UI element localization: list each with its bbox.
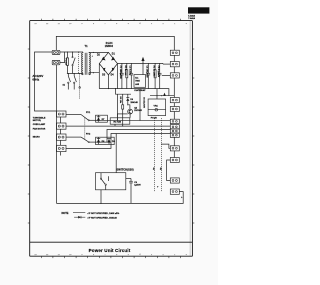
capacitor C3 (157, 63, 162, 88)
scan shadow line (189, 21, 191, 256)
svg-text:R4 72B: R4 72B (114, 120, 122, 123)
frame tick marks top (0, 0, 1, 1)
connector CN3 (57, 134, 67, 140)
connector CN-I (170, 178, 179, 183)
connector CN-E (170, 107, 179, 112)
plug connector P2 (52, 60, 60, 64)
transistor Q2 (128, 107, 143, 114)
5V output arrow (141, 57, 144, 75)
fuse F1 (65, 52, 69, 74)
capacitor C2 (129, 63, 134, 88)
svg-text:OVEN LAMP: OVEN LAMP (33, 123, 46, 126)
connector CN4 (57, 145, 67, 151)
diode D9 (107, 139, 115, 145)
node secondary-bridge junction (93, 52, 94, 53)
svg-text:60Hz: 60Hz (32, 78, 39, 82)
connector CN1 (57, 111, 67, 117)
svg-text:D1-D4: D1-D4 (106, 42, 113, 45)
C9 ground stub (130, 188, 132, 204)
left connector group bus (60, 117, 62, 156)
border frame (30, 21, 193, 257)
capacitor C1 (119, 63, 124, 88)
secondary top wire (89, 51, 108, 53)
lower AC rail (67, 73, 83, 75)
CN-G link wire (161, 144, 170, 148)
resistor box R4 (110, 118, 130, 124)
bridge minus leg wire (107, 75, 109, 89)
R4 stub (114, 124, 116, 126)
transformer T1 (82, 44, 91, 75)
R3 line (115, 88, 131, 121)
wire hot rail to transformer (65, 51, 84, 53)
diode D8 D9 box (96, 137, 115, 144)
monitor switch contact (79, 87, 81, 89)
interlock switch S1 (72, 52, 75, 74)
svg-text:2SC945: 2SC945 (134, 109, 142, 112)
DC minus rail (99, 88, 163, 90)
zone numbers (34, 22, 187, 256)
top rail wire (56, 36, 174, 50)
bridge AC leg wire (98, 64, 100, 89)
VR1 feed wires (156, 89, 158, 99)
CN-H CN-I bracket wire (167, 160, 171, 181)
frame tick marks (28, 19, 195, 258)
svg-text:1µ/50V: 1µ/50V (134, 185, 141, 187)
wire stub to CN-C (162, 74, 170, 76)
Q2 emitter wire (129, 114, 131, 118)
middle bus wire 1 (99, 119, 171, 121)
connector CN-A (170, 50, 179, 55)
S20 feed wire (115, 134, 117, 173)
svg-text:1N4004: 1N4004 (105, 45, 114, 48)
switch linkage dashed line A (152, 118, 154, 192)
svg-text:R3 10k: R3 10k (119, 97, 121, 105)
svg-text:C1 1000µ/25V: C1 1000µ/25V (119, 66, 121, 80)
svg-text:C2 0.022µ: C2 0.022µ (129, 66, 131, 76)
plug connector P1 (52, 50, 60, 54)
wire AC neutral return (56, 65, 58, 204)
svg-text:SWITCH(S20): SWITCH(S20) (117, 168, 134, 172)
node dots on hot rail (67, 51, 68, 52)
AC input wire (35, 52, 57, 111)
secondary bottom wire (89, 73, 99, 75)
Q2 base wire (117, 113, 127, 115)
relay RY1 (66, 112, 99, 121)
switch linkage dashes lower (79, 74, 81, 100)
middle bus wire 4 (66, 134, 170, 149)
switch linkage dashed line B (159, 118, 161, 192)
line from bank (139, 89, 140, 121)
small output arrow (163, 93, 165, 96)
diode D7 box (96, 115, 108, 122)
connector CN-D (170, 98, 179, 103)
resistor R1 (124, 63, 128, 88)
diode D8 (97, 137, 105, 144)
relay actuator dashes (84, 118, 86, 140)
NOTE block (62, 212, 120, 220)
sheet number black redaction box (188, 7, 209, 20)
relay RY2 (66, 134, 99, 143)
svg-text:R1 4.7 1W: R1 4.7 1W (124, 66, 127, 76)
cap bank right edge wire (162, 62, 164, 65)
connector CN-J (170, 189, 179, 194)
svg-text:F1 15A: F1 15A (65, 59, 68, 66)
svg-text:FAN MOTOR: FAN MOTOR (33, 127, 46, 130)
svg-text:NOTE: NOTE (62, 212, 69, 215)
switch S20 box (96, 173, 126, 190)
connector CN-B (170, 62, 179, 67)
svg-text:C5 100µ/10V: C5 100µ/10V (146, 66, 148, 79)
svg-text:Power Unit Circuit: Power Unit Circuit (89, 248, 131, 253)
connector CN-G (170, 146, 179, 151)
resistor R5 (122, 94, 124, 126)
connector CN-H (170, 158, 179, 163)
connector CN-C (170, 73, 179, 78)
connector CN-F cluster (170, 119, 179, 137)
diode D6 (126, 94, 138, 109)
middle bus wire 3 (99, 130, 171, 143)
middle bus wire 2 (66, 125, 170, 127)
right connector column bus (173, 55, 175, 157)
VR1 potentiometer box (148, 99, 166, 120)
svg-text:: IF NOT SPECIFIED, 1/4W ±5%: : IF NOT SPECIFIED, 1/4W ±5% (87, 212, 119, 215)
svg-text:MICRO: MICRO (33, 136, 40, 138)
svg-text:C6 47µ/16V: C6 47µ/16V (143, 97, 146, 109)
svg-text:: IF NOT SPECIFIED, 1N4148: : IF NOT SPECIFIED, 1N4148 (87, 216, 117, 219)
wire jog P1 to P2 (60, 52, 65, 63)
bottom return wire (101, 190, 183, 204)
capacitor C9 (126, 179, 142, 188)
svg-text:R2 1k 1/2W: R2 1k 1/2W (153, 66, 155, 77)
bridge plus drop wire (117, 64, 119, 89)
svg-text:MOTOR,: MOTOR, (33, 120, 42, 122)
diode D7 (97, 115, 105, 122)
capacitor C5 (146, 63, 151, 88)
monitor switch dashed linkage (78, 52, 80, 74)
neutral joins bottom (57, 202, 102, 204)
bridge rectifier D1-D4 (97, 42, 118, 77)
connector CN2 (57, 123, 67, 129)
bridge plus wire to cap bank (118, 62, 164, 64)
door switch S2 (68, 74, 71, 90)
title bar separator (30, 241, 193, 243)
door switch S3 (74, 74, 77, 90)
svg-text:C3 0.1µ/50V: C3 0.1µ/50V (157, 66, 159, 78)
resistor R2 (153, 63, 157, 88)
regulator IC1 (134, 75, 146, 92)
svg-text:7-A68A: 7-A68A (188, 17, 195, 20)
svg-text:1N4148: 1N4148 (130, 101, 138, 104)
